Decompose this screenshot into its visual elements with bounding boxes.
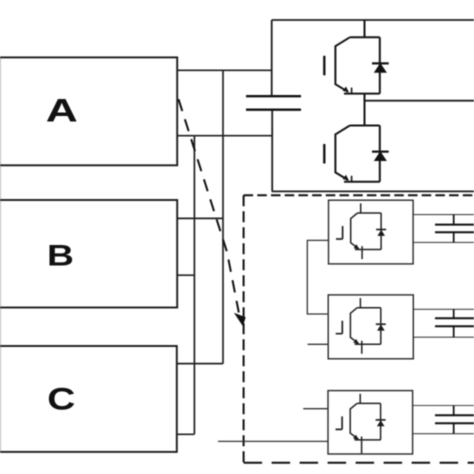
svg-text:A: A <box>46 93 78 129</box>
svg-text:B: B <box>47 239 74 273</box>
svg-text:C: C <box>47 382 75 417</box>
